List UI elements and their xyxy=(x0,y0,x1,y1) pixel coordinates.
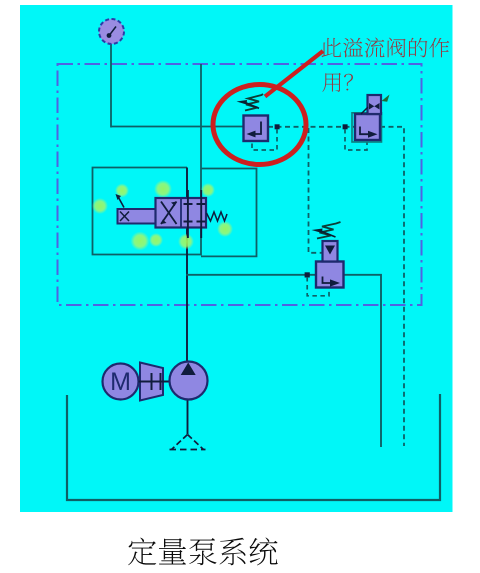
red annotation circle xyxy=(213,85,306,165)
spring of sequence valve xyxy=(312,222,341,239)
pilot line: dashed drop to sequence valve top xyxy=(309,128,323,253)
pilot line: dashed between relief valves xyxy=(268,126,355,128)
return spring xyxy=(207,212,228,221)
wire loop box left of directional valve xyxy=(93,168,202,255)
coupling xyxy=(139,363,172,401)
wire: sequence valve outlet to drop xyxy=(344,275,382,447)
blocked ports cell xyxy=(184,203,193,205)
relief valve R2 (top right) xyxy=(352,113,382,142)
wire: vertical x=201 from boundary to below valve xyxy=(200,64,202,255)
wire: branch to sequence valve y=275 xyxy=(186,274,316,276)
pilot loop under relief valve 2 xyxy=(345,129,367,150)
annotation text line 1: 此溢流阀的作 xyxy=(321,38,341,57)
solenoid actuator xyxy=(118,209,157,224)
red annotation leader line xyxy=(265,51,323,97)
relief valve R1 (circled) xyxy=(244,116,269,142)
pilot line: dashed valve2 to right drop xyxy=(380,127,404,446)
check valve box on sequence valve xyxy=(323,241,338,262)
caption: 定量泵系统 xyxy=(128,538,156,566)
junction node at relief valve 1 pilot xyxy=(275,124,280,129)
pressure gauge xyxy=(99,19,124,44)
tank outline xyxy=(67,394,440,500)
crossed arrows cell xyxy=(161,202,177,225)
pilot loop under relief valve 1 xyxy=(252,129,277,150)
valve body xyxy=(156,198,207,228)
cyan diagram background xyxy=(20,5,453,512)
wire: pump suction line xyxy=(187,399,189,434)
green arrow at relief valve R2 xyxy=(382,95,390,102)
hydraulic pump P1 xyxy=(170,362,208,400)
pilot section box on relief valve R2 xyxy=(361,95,381,114)
spring of relief valve R1 xyxy=(237,94,264,111)
lever arrow xyxy=(116,194,122,200)
wire loop box right of directional valve xyxy=(201,169,257,257)
sequence valve V3 xyxy=(316,262,344,288)
suction strainer xyxy=(170,435,206,450)
dash-dot enclosure boundary box xyxy=(58,64,422,305)
wire: gauge drop line xyxy=(110,44,112,128)
port wires crossing valve body xyxy=(187,190,189,238)
pilot loop under sequence valve xyxy=(307,277,329,296)
junction node at sequence valve pilot xyxy=(305,272,310,277)
wire: pump pressure line x=187 xyxy=(186,168,188,365)
annotation text line 2: 用？ xyxy=(322,73,341,92)
electric motor M1 xyxy=(103,364,139,400)
svg-text:M: M xyxy=(110,368,131,396)
directional valve DV1 xyxy=(116,190,228,238)
junction node at relief valve 2 pilot xyxy=(343,124,348,129)
wire: main pilot header y=126.5 xyxy=(111,126,244,128)
